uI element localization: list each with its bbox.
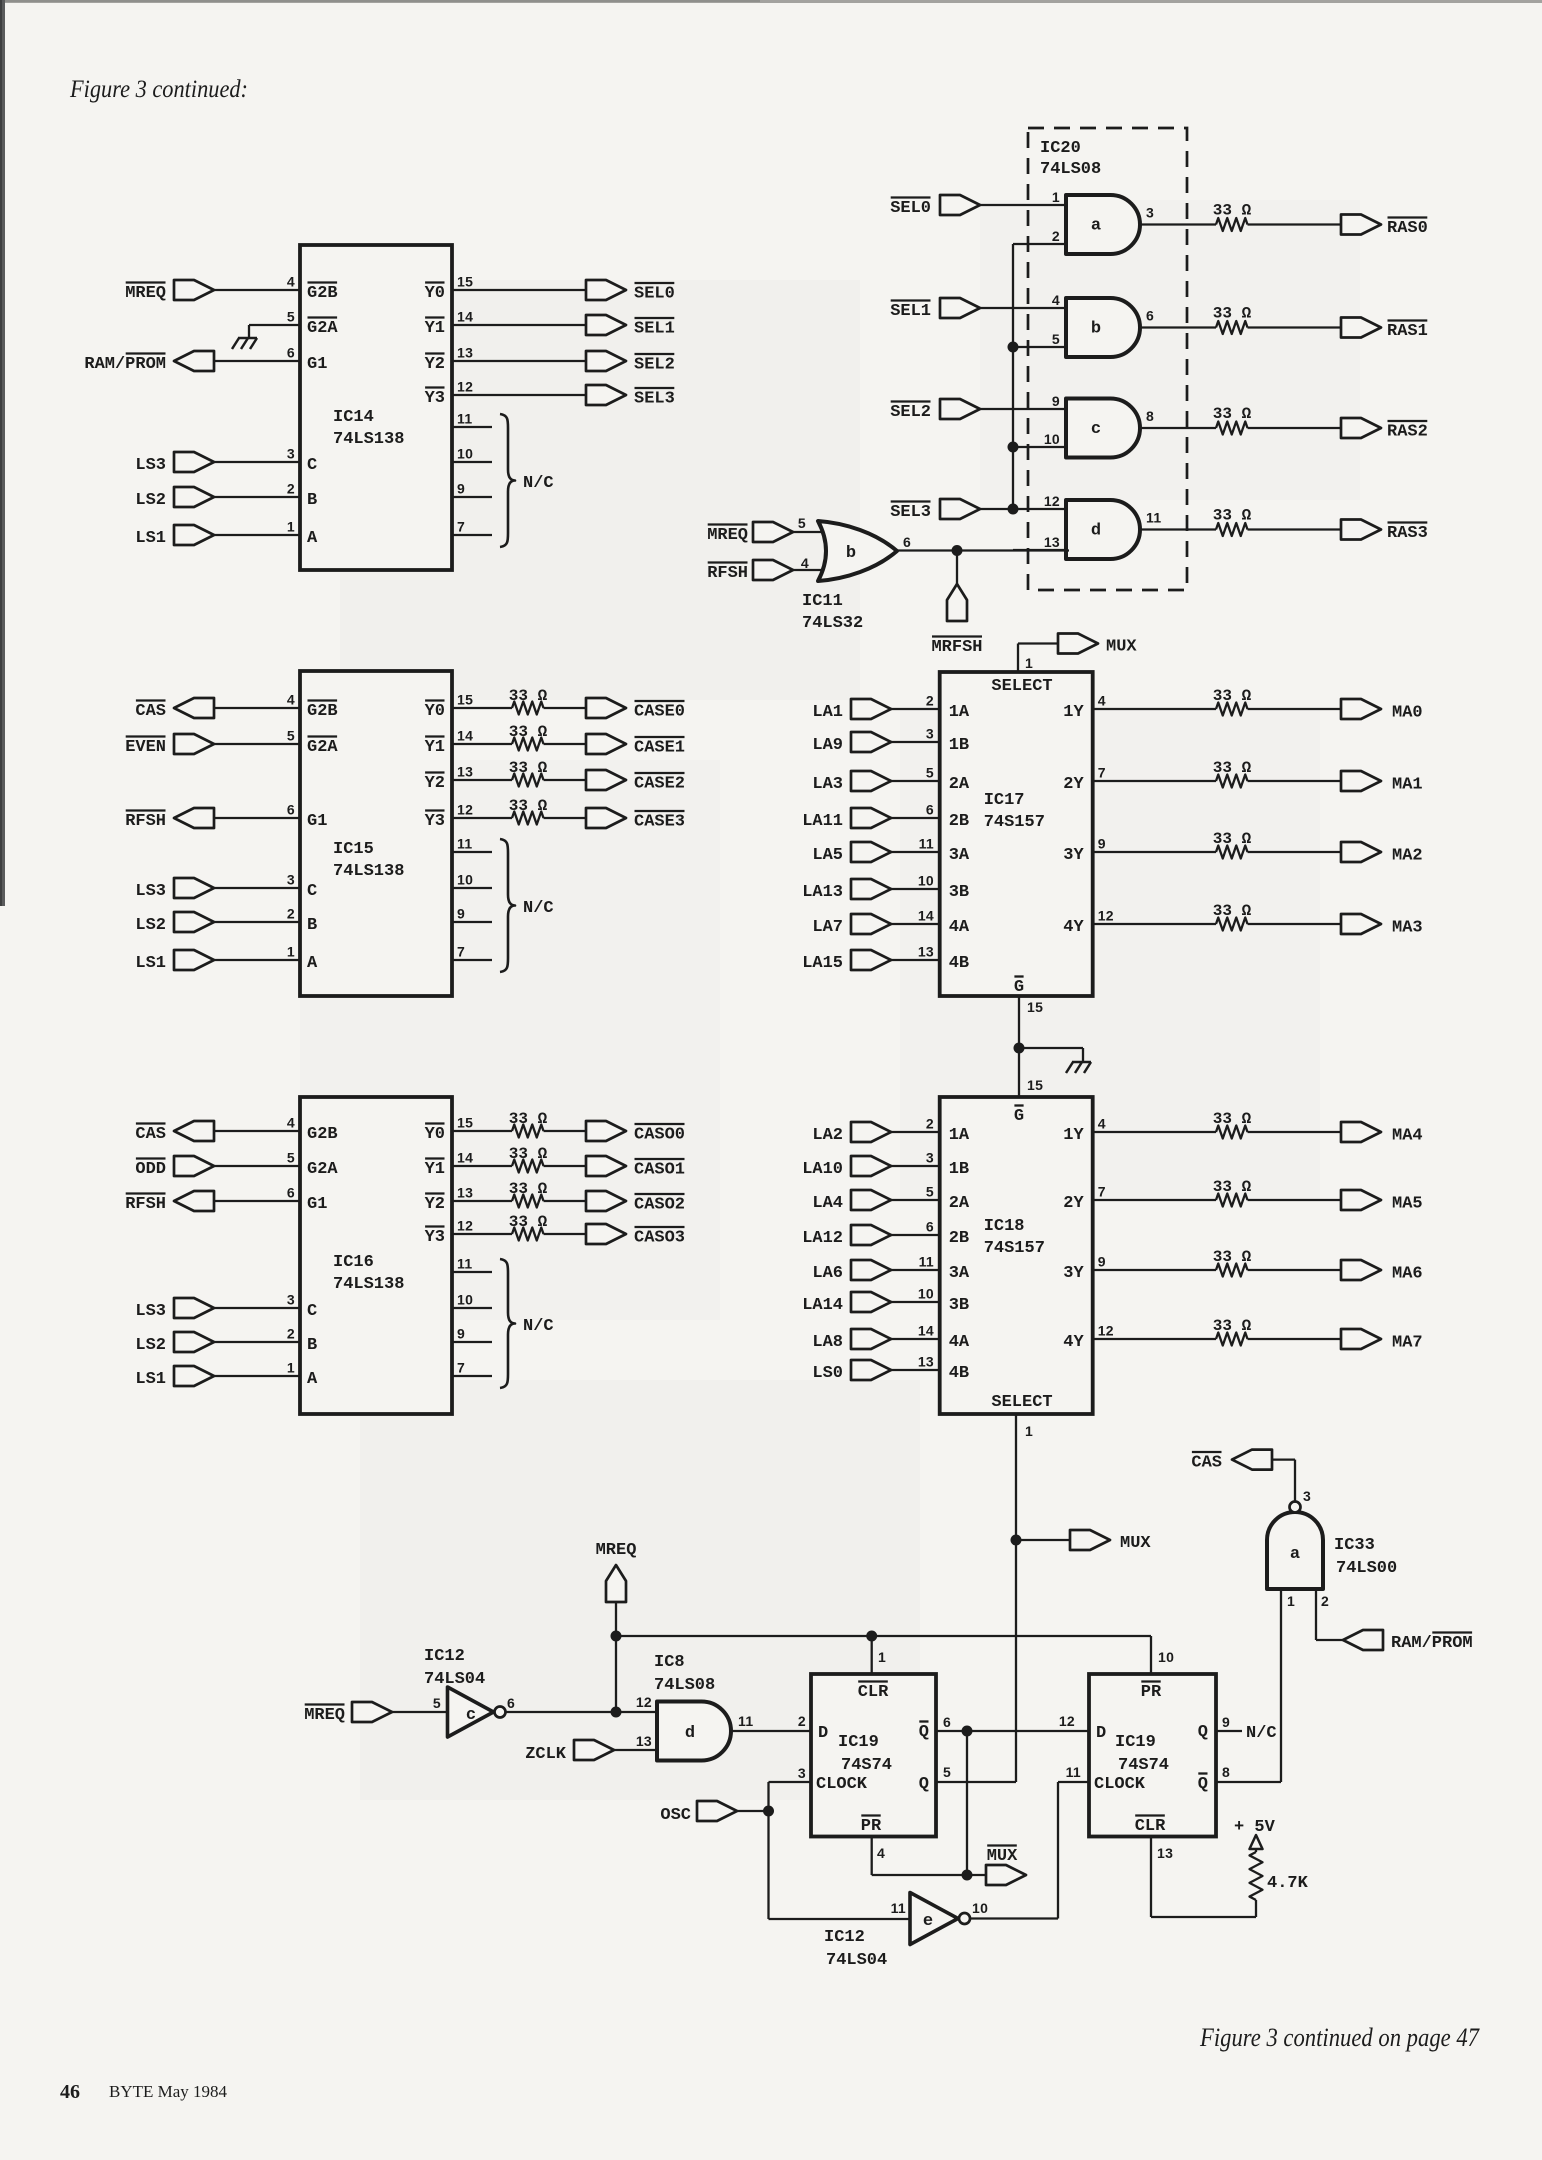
svg-text:13: 13 [918, 1354, 934, 1370]
svg-text:a: a [1091, 217, 1101, 236]
svg-text:11: 11 [1066, 1764, 1081, 1780]
svg-text:5: 5 [798, 515, 806, 531]
svg-text:15: 15 [457, 274, 473, 290]
svg-text:IC16: IC16 [333, 1253, 374, 1272]
svg-text:12: 12 [636, 1694, 652, 1710]
svg-text:14: 14 [918, 908, 934, 924]
svg-text:LS1: LS1 [135, 1370, 166, 1389]
svg-text:G2B: G2B [307, 284, 338, 303]
svg-text:13: 13 [918, 944, 934, 960]
svg-text:Q: Q [919, 1775, 929, 1794]
svg-text:12: 12 [1059, 1713, 1075, 1729]
svg-text:G2A: G2A [307, 1160, 338, 1179]
svg-text:LA10: LA10 [802, 1160, 843, 1179]
svg-text:9: 9 [1098, 836, 1106, 852]
svg-text:2: 2 [926, 693, 934, 709]
svg-text:B: B [307, 1336, 317, 1355]
svg-text:10: 10 [918, 1286, 934, 1302]
svg-text:74LS138: 74LS138 [333, 430, 404, 449]
svg-text:33 Ω: 33 Ω [1213, 1317, 1252, 1335]
svg-text:G2A: G2A [307, 738, 338, 757]
svg-text:10: 10 [457, 446, 473, 462]
svg-text:6: 6 [287, 802, 295, 818]
svg-text:3: 3 [287, 872, 295, 888]
svg-text:5: 5 [287, 1150, 295, 1166]
svg-text:N/C: N/C [1246, 1724, 1277, 1743]
svg-text:G2B: G2B [307, 702, 338, 721]
svg-text:12: 12 [1098, 1323, 1114, 1339]
svg-text:2: 2 [287, 481, 295, 497]
svg-text:3: 3 [1146, 205, 1154, 221]
svg-text:33 Ω: 33 Ω [509, 1145, 548, 1163]
svg-text:14: 14 [457, 1150, 473, 1166]
svg-text:1: 1 [1052, 189, 1060, 205]
svg-text:2: 2 [1321, 1593, 1329, 1609]
svg-text:7: 7 [1098, 1184, 1106, 1200]
svg-text:11: 11 [891, 1900, 906, 1916]
svg-text:MA5: MA5 [1392, 1195, 1423, 1214]
svg-text:CLOCK: CLOCK [1094, 1775, 1146, 1794]
svg-text:MUX: MUX [1120, 1534, 1151, 1553]
svg-text:74LS32: 74LS32 [802, 614, 863, 633]
svg-text:ZCLK: ZCLK [525, 1745, 567, 1764]
svg-text:PR: PR [861, 1817, 882, 1836]
svg-text:IC19: IC19 [1115, 1733, 1156, 1752]
svg-text:RFSH: RFSH [707, 564, 748, 583]
svg-text:SELECT: SELECT [991, 1393, 1052, 1412]
svg-text:15: 15 [1027, 999, 1043, 1015]
svg-text:SEL1: SEL1 [890, 302, 931, 321]
svg-text:2A: 2A [949, 775, 970, 794]
svg-text:11: 11 [738, 1713, 753, 1729]
svg-text:4: 4 [1098, 1116, 1106, 1132]
svg-text:2: 2 [287, 906, 295, 922]
svg-text:SEL1: SEL1 [634, 320, 675, 339]
svg-text:LA4: LA4 [812, 1194, 843, 1213]
svg-text:CASO2: CASO2 [634, 1196, 685, 1215]
svg-text:4: 4 [287, 1115, 295, 1131]
svg-text:LA6: LA6 [812, 1264, 843, 1283]
svg-text:Y3: Y3 [425, 389, 445, 408]
svg-text:74LS00: 74LS00 [1336, 1559, 1397, 1578]
svg-text:b: b [1091, 320, 1101, 339]
svg-text:74LS08: 74LS08 [1040, 160, 1101, 179]
svg-text:SEL2: SEL2 [890, 403, 931, 422]
svg-text:Y0: Y0 [425, 1125, 445, 1144]
svg-text:MREQ: MREQ [304, 1706, 345, 1725]
svg-text:9: 9 [1222, 1714, 1230, 1730]
svg-text:14: 14 [457, 309, 473, 325]
svg-text:B: B [307, 916, 317, 935]
svg-text:33 Ω: 33 Ω [509, 1110, 548, 1128]
svg-text:5: 5 [287, 728, 295, 744]
svg-text:33 Ω: 33 Ω [509, 1180, 548, 1198]
svg-text:1: 1 [287, 944, 295, 960]
svg-text:1A: 1A [949, 703, 970, 722]
svg-text:SELECT: SELECT [991, 677, 1052, 696]
svg-text:CAS: CAS [1191, 1454, 1222, 1473]
svg-text:3A: 3A [949, 846, 970, 865]
svg-text:5: 5 [926, 1184, 934, 1200]
svg-text:IC12: IC12 [424, 1647, 465, 1666]
svg-text:3A: 3A [949, 1264, 970, 1283]
svg-text:Y1: Y1 [425, 1160, 445, 1179]
svg-text:11: 11 [457, 411, 472, 427]
svg-text:Figure 3 continued:: Figure 3 continued: [69, 76, 248, 103]
svg-text:MA2: MA2 [1392, 847, 1423, 866]
svg-text:IC14: IC14 [333, 408, 374, 427]
svg-text:RFSH: RFSH [125, 812, 166, 831]
svg-text:ODD: ODD [135, 1160, 166, 1179]
svg-text:33 Ω: 33 Ω [509, 723, 548, 741]
svg-text:4A: 4A [949, 1333, 970, 1352]
svg-text:LA13: LA13 [802, 883, 843, 902]
svg-text:Y3: Y3 [425, 1228, 445, 1247]
svg-text:MA3: MA3 [1392, 919, 1423, 938]
svg-text:CAS: CAS [135, 1125, 166, 1144]
svg-text:c: c [466, 1706, 476, 1725]
svg-text:IC18: IC18 [984, 1217, 1025, 1236]
svg-text:IC12: IC12 [824, 1928, 865, 1947]
svg-text:4: 4 [1098, 693, 1106, 709]
svg-text:10: 10 [1158, 1649, 1174, 1665]
svg-text:MREQ: MREQ [596, 1541, 637, 1560]
svg-text:6: 6 [287, 345, 295, 361]
svg-text:3: 3 [926, 726, 934, 742]
svg-text:11: 11 [457, 1256, 472, 1272]
svg-text:MA1: MA1 [1392, 776, 1423, 795]
svg-text:4: 4 [287, 692, 295, 708]
svg-text:4Y: 4Y [1063, 1333, 1084, 1352]
svg-text:e: e [923, 1912, 933, 1931]
svg-text:74S74: 74S74 [1118, 1756, 1169, 1775]
svg-text:G: G [1014, 1107, 1024, 1126]
svg-text:Y2: Y2 [425, 1195, 445, 1214]
svg-text:LA15: LA15 [802, 954, 843, 973]
svg-text:4B: 4B [949, 954, 969, 973]
svg-text:33 Ω: 33 Ω [1213, 305, 1252, 323]
svg-text:CASE2: CASE2 [634, 775, 685, 794]
svg-text:LA8: LA8 [812, 1333, 843, 1352]
svg-text:N/C: N/C [523, 1317, 554, 1336]
svg-text:8: 8 [1222, 1764, 1230, 1780]
svg-text:74LS138: 74LS138 [333, 862, 404, 881]
svg-text:15: 15 [457, 1115, 473, 1131]
svg-text:13: 13 [636, 1733, 652, 1749]
svg-text:12: 12 [1044, 493, 1060, 509]
svg-text:LS3: LS3 [135, 1302, 166, 1321]
svg-text:33 Ω: 33 Ω [1213, 1178, 1252, 1196]
svg-text:9: 9 [1052, 393, 1060, 409]
svg-text:LA11: LA11 [802, 812, 843, 831]
svg-text:33 Ω: 33 Ω [1213, 759, 1252, 777]
svg-text:B: B [307, 491, 317, 510]
svg-text:OSC: OSC [660, 1806, 691, 1825]
svg-text:LA2: LA2 [812, 1126, 843, 1145]
svg-text:1B: 1B [949, 736, 969, 755]
svg-text:d: d [1091, 522, 1101, 541]
svg-text:BYTE May 1984: BYTE May 1984 [109, 2082, 227, 2101]
svg-text:4.7K: 4.7K [1267, 1874, 1309, 1893]
svg-text:EVEN: EVEN [125, 738, 166, 757]
svg-text:CASE0: CASE0 [634, 703, 685, 722]
svg-text:33 Ω: 33 Ω [1213, 1248, 1252, 1266]
svg-text:Q: Q [1198, 1775, 1208, 1794]
svg-text:11: 11 [919, 836, 934, 852]
svg-text:G1: G1 [307, 355, 327, 374]
svg-text:33 Ω: 33 Ω [509, 687, 548, 705]
svg-text:2: 2 [798, 1713, 806, 1729]
svg-text:CASO0: CASO0 [634, 1126, 685, 1145]
svg-text:2A: 2A [949, 1194, 970, 1213]
svg-text:6: 6 [903, 534, 911, 550]
svg-text:Y2: Y2 [425, 355, 445, 374]
svg-text:74LS04: 74LS04 [424, 1670, 485, 1689]
svg-text:1: 1 [287, 1360, 295, 1376]
svg-text:IC20: IC20 [1040, 139, 1081, 158]
svg-text:Y3: Y3 [425, 812, 445, 831]
svg-text:33 Ω: 33 Ω [509, 759, 548, 777]
svg-text:13: 13 [1044, 534, 1060, 550]
svg-text:LS2: LS2 [135, 916, 166, 935]
svg-text:2: 2 [1052, 228, 1060, 244]
svg-text:12: 12 [457, 1218, 473, 1234]
svg-text:CAS: CAS [135, 702, 166, 721]
svg-text:C: C [307, 882, 317, 901]
svg-text:8: 8 [1146, 408, 1154, 424]
svg-text:RFSH: RFSH [125, 1195, 166, 1214]
svg-text:RAM/PROM: RAM/PROM [84, 355, 166, 374]
svg-text:7: 7 [457, 944, 465, 960]
svg-text:SEL3: SEL3 [634, 390, 675, 409]
svg-text:CLR: CLR [858, 1683, 889, 1702]
svg-text:5: 5 [433, 1695, 441, 1711]
svg-text:6: 6 [926, 802, 934, 818]
svg-text:MREQ: MREQ [707, 526, 748, 545]
svg-text:RAS1: RAS1 [1387, 322, 1428, 341]
svg-text:Y0: Y0 [425, 284, 445, 303]
svg-text:5: 5 [287, 309, 295, 325]
svg-text:LS1: LS1 [135, 529, 166, 548]
svg-text:SEL0: SEL0 [890, 199, 931, 218]
svg-text:7: 7 [457, 519, 465, 535]
svg-text:PR: PR [1141, 1683, 1162, 1702]
svg-text:A: A [307, 1370, 318, 1389]
svg-text:b: b [846, 544, 856, 563]
svg-text:G1: G1 [307, 812, 327, 831]
svg-text:CASE1: CASE1 [634, 739, 685, 758]
svg-text:MA4: MA4 [1392, 1127, 1423, 1146]
svg-text:14: 14 [918, 1323, 934, 1339]
svg-text:CASO1: CASO1 [634, 1161, 685, 1180]
svg-text:6: 6 [287, 1185, 295, 1201]
svg-text:33 Ω: 33 Ω [1213, 902, 1252, 920]
svg-text:c: c [1091, 420, 1101, 439]
svg-text:LA1: LA1 [812, 703, 843, 722]
svg-text:C: C [307, 456, 317, 475]
svg-text:Y1: Y1 [425, 738, 445, 757]
svg-text:11: 11 [1146, 510, 1161, 526]
svg-text:2B: 2B [949, 812, 969, 831]
svg-text:6: 6 [507, 1695, 515, 1711]
svg-text:9: 9 [457, 906, 465, 922]
svg-text:10: 10 [457, 872, 473, 888]
svg-text:LS0: LS0 [812, 1364, 843, 1383]
svg-text:RAS0: RAS0 [1387, 219, 1428, 238]
svg-text:G: G [1014, 978, 1024, 997]
svg-text:13: 13 [457, 764, 473, 780]
svg-text:MA7: MA7 [1392, 1334, 1423, 1353]
svg-text:C: C [307, 1302, 317, 1321]
svg-text:33 Ω: 33 Ω [509, 797, 548, 815]
svg-text:Y0: Y0 [425, 702, 445, 721]
svg-text:LA7: LA7 [812, 918, 843, 937]
svg-text:74LS04: 74LS04 [826, 1951, 887, 1970]
svg-text:2Y: 2Y [1063, 775, 1084, 794]
svg-text:12: 12 [457, 802, 473, 818]
svg-text:13: 13 [457, 1185, 473, 1201]
svg-text:IC8: IC8 [654, 1653, 685, 1672]
svg-text:9: 9 [1098, 1254, 1106, 1270]
svg-text:3: 3 [287, 446, 295, 462]
svg-text:IC19: IC19 [838, 1733, 879, 1752]
svg-text:Y1: Y1 [425, 319, 445, 338]
svg-text:15: 15 [457, 692, 473, 708]
svg-text:4: 4 [877, 1845, 885, 1861]
svg-text:4Y: 4Y [1063, 918, 1084, 937]
svg-text:MREQ: MREQ [125, 284, 166, 303]
svg-text:SEL3: SEL3 [890, 503, 931, 522]
svg-text:74S157: 74S157 [984, 813, 1045, 832]
svg-text:13: 13 [1157, 1845, 1173, 1861]
svg-text:2B: 2B [949, 1229, 969, 1248]
svg-text:74LS08: 74LS08 [654, 1676, 715, 1695]
svg-text:d: d [685, 1724, 695, 1743]
svg-text:RAS2: RAS2 [1387, 423, 1428, 442]
svg-text:74LS138: 74LS138 [333, 1275, 404, 1294]
svg-text:10: 10 [457, 1292, 473, 1308]
svg-text:LA3: LA3 [812, 775, 843, 794]
svg-text:D: D [1096, 1724, 1106, 1743]
svg-text:33 Ω: 33 Ω [1213, 830, 1252, 848]
svg-text:CLR: CLR [1135, 1817, 1166, 1836]
svg-text:Figure 3 continued on page 47: Figure 3 continued on page 47 [1199, 2023, 1480, 2052]
svg-text:13: 13 [457, 345, 473, 361]
svg-text:9: 9 [457, 1326, 465, 1342]
svg-text:LS2: LS2 [135, 1336, 166, 1355]
svg-text:10: 10 [972, 1900, 988, 1916]
svg-text:SEL2: SEL2 [634, 356, 675, 375]
svg-text:1: 1 [1025, 1423, 1033, 1439]
svg-text:3: 3 [287, 1292, 295, 1308]
svg-text:3B: 3B [949, 883, 969, 902]
svg-text:15: 15 [1027, 1077, 1043, 1093]
svg-text:11: 11 [457, 836, 472, 852]
svg-text:6: 6 [1146, 308, 1154, 324]
svg-text:3: 3 [798, 1765, 806, 1781]
svg-text:33 Ω: 33 Ω [1213, 687, 1252, 705]
svg-text:Q: Q [1198, 1723, 1208, 1742]
svg-text:3Y: 3Y [1063, 846, 1084, 865]
svg-text:1A: 1A [949, 1126, 970, 1145]
svg-text:5: 5 [943, 1764, 951, 1780]
svg-text:N/C: N/C [523, 899, 554, 918]
svg-text:MA6: MA6 [1392, 1265, 1423, 1284]
svg-text:6: 6 [926, 1219, 934, 1235]
svg-text:IC33: IC33 [1334, 1536, 1375, 1555]
svg-text:MRFSH: MRFSH [931, 638, 982, 657]
svg-text:MA0: MA0 [1392, 704, 1423, 723]
svg-text:+ 5V: + 5V [1234, 1818, 1276, 1837]
svg-text:3: 3 [1303, 1488, 1311, 1504]
svg-text:7: 7 [1098, 765, 1106, 781]
svg-text:MUX: MUX [987, 1847, 1018, 1866]
svg-text:12: 12 [1098, 908, 1114, 924]
svg-text:4: 4 [801, 555, 809, 571]
svg-text:1: 1 [287, 519, 295, 535]
svg-text:33 Ω: 33 Ω [1213, 405, 1252, 423]
svg-text:LS2: LS2 [135, 491, 166, 510]
svg-text:A: A [307, 529, 318, 548]
svg-text:LA9: LA9 [812, 736, 843, 755]
svg-text:SEL0: SEL0 [634, 285, 675, 304]
svg-text:3: 3 [926, 1150, 934, 1166]
svg-text:LA14: LA14 [802, 1296, 843, 1315]
svg-text:9: 9 [457, 481, 465, 497]
svg-text:2Y: 2Y [1063, 1194, 1084, 1213]
svg-text:IC17: IC17 [984, 791, 1025, 810]
svg-text:1Y: 1Y [1063, 703, 1084, 722]
svg-text:4: 4 [1052, 292, 1060, 308]
svg-text:LA12: LA12 [802, 1229, 843, 1248]
svg-text:4B: 4B [949, 1364, 969, 1383]
svg-text:G2B: G2B [307, 1125, 338, 1144]
svg-text:33 Ω: 33 Ω [1213, 507, 1252, 525]
svg-text:11: 11 [919, 1254, 934, 1270]
svg-text:LA5: LA5 [812, 846, 843, 865]
svg-text:A: A [307, 954, 318, 973]
svg-text:10: 10 [918, 873, 934, 889]
svg-text:7: 7 [457, 1360, 465, 1376]
svg-text:14: 14 [457, 728, 473, 744]
svg-text:4A: 4A [949, 918, 970, 937]
svg-text:IC15: IC15 [333, 840, 374, 859]
svg-text:33 Ω: 33 Ω [1213, 1110, 1252, 1128]
svg-text:5: 5 [1052, 331, 1060, 347]
svg-text:a: a [1290, 1545, 1300, 1564]
svg-text:10: 10 [1044, 431, 1060, 447]
svg-text:Y2: Y2 [425, 774, 445, 793]
svg-text:IC11: IC11 [802, 592, 843, 611]
svg-text:CASO3: CASO3 [634, 1229, 685, 1248]
svg-text:D: D [818, 1724, 828, 1743]
svg-text:2: 2 [926, 1116, 934, 1132]
svg-text:3Y: 3Y [1063, 1264, 1084, 1283]
svg-text:1: 1 [878, 1649, 886, 1665]
svg-text:46: 46 [60, 2081, 80, 2103]
svg-text:4: 4 [287, 274, 295, 290]
svg-text:CASE3: CASE3 [634, 813, 685, 832]
svg-text:1: 1 [1287, 1593, 1295, 1609]
svg-text:5: 5 [926, 765, 934, 781]
svg-text:N/C: N/C [523, 474, 554, 493]
svg-text:3B: 3B [949, 1296, 969, 1315]
svg-text:1Y: 1Y [1063, 1126, 1084, 1145]
svg-text:MUX: MUX [1106, 638, 1137, 657]
svg-text:2: 2 [287, 1326, 295, 1342]
svg-text:G1: G1 [307, 1195, 327, 1214]
svg-text:1: 1 [1025, 655, 1033, 671]
